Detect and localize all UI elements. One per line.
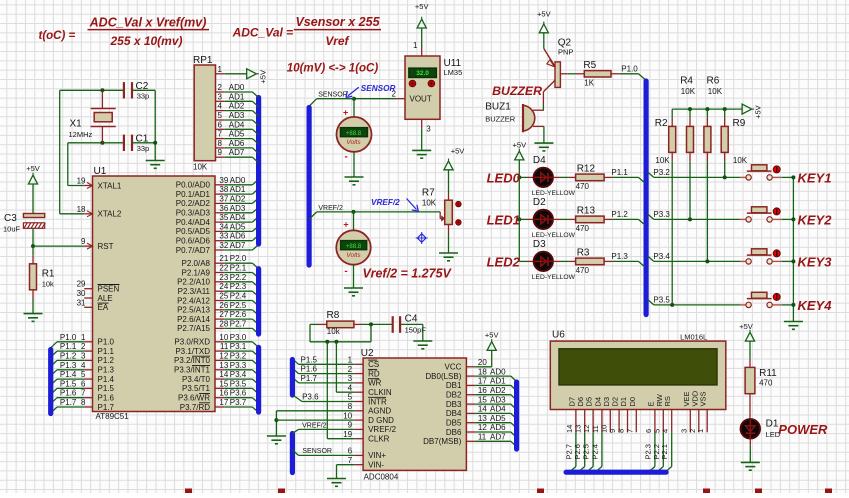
svg-text:AD5: AD5 (490, 414, 506, 423)
svg-text:AD1: AD1 (230, 185, 246, 194)
svg-text:DB3: DB3 (446, 400, 462, 409)
svg-text:VREF/2: VREF/2 (318, 205, 343, 212)
svg-text:R6: R6 (707, 76, 720, 87)
svg-text:7: 7 (348, 456, 353, 465)
svg-text:32: 32 (219, 241, 228, 250)
svg-text:7: 7 (81, 389, 86, 398)
svg-text:28: 28 (219, 319, 228, 328)
svg-text:3: 3 (218, 92, 223, 101)
svg-text:+5V: +5V (754, 105, 763, 119)
svg-text:P1.2: P1.2 (60, 351, 77, 360)
svg-text:P1.2: P1.2 (611, 210, 628, 219)
svg-text:P3.5: P3.5 (230, 379, 247, 388)
svg-text:AT89C51: AT89C51 (96, 412, 130, 421)
svg-text:470: 470 (576, 266, 590, 275)
svg-text:5: 5 (348, 393, 353, 402)
svg-text:11: 11 (220, 342, 229, 351)
svg-text:P2.2: P2.2 (230, 273, 247, 282)
svg-text:P3.2/INT0: P3.2/INT0 (174, 356, 211, 365)
svg-text:P2.7/A15: P2.7/A15 (177, 324, 210, 333)
svg-text:PSEN: PSEN (98, 285, 120, 294)
svg-text:P3.7: P3.7 (230, 398, 247, 407)
svg-text:D0: D0 (628, 397, 637, 407)
svg-text:470: 470 (576, 182, 590, 191)
svg-text:AD2: AD2 (230, 194, 246, 203)
svg-text:SENSOR: SENSOR (318, 92, 348, 99)
svg-text:P2.2/A10: P2.2/A10 (177, 278, 210, 287)
svg-text:D5: D5 (585, 397, 594, 407)
svg-text:23: 23 (219, 273, 228, 282)
svg-text:10K: 10K (681, 87, 696, 96)
svg-text:KEY1: KEY1 (798, 170, 832, 185)
svg-text:13: 13 (478, 414, 487, 423)
svg-text:34: 34 (219, 222, 228, 231)
svg-text:P3.2: P3.2 (230, 351, 247, 360)
svg-text:4: 4 (661, 429, 670, 433)
svg-text:P3.0: P3.0 (230, 333, 247, 342)
svg-text:P3.4/T0: P3.4/T0 (182, 375, 211, 384)
svg-text:P1.0: P1.0 (621, 64, 638, 73)
svg-text:CS: CS (368, 360, 379, 369)
svg-text:VREF/2: VREF/2 (302, 422, 327, 429)
svg-text:25: 25 (219, 292, 228, 301)
svg-text:AD0: AD0 (490, 367, 506, 376)
svg-text:10K: 10K (708, 87, 723, 96)
svg-text:Vref/2 = 1.275V: Vref/2 = 1.275V (363, 267, 453, 281)
svg-text:VIN+: VIN+ (368, 451, 386, 460)
svg-text:D1: D1 (766, 419, 779, 430)
svg-text:18: 18 (478, 367, 487, 376)
svg-text:+5V: +5V (739, 322, 753, 331)
svg-text:LED0: LED0 (487, 171, 521, 186)
svg-text:+5V: +5V (485, 331, 499, 340)
svg-text:5: 5 (81, 370, 86, 379)
svg-text:9: 9 (218, 148, 223, 157)
svg-text:P1.3: P1.3 (60, 361, 77, 370)
svg-text:P1.7: P1.7 (301, 374, 318, 383)
svg-text:P3.5/T1: P3.5/T1 (182, 384, 211, 393)
svg-text:P1.7: P1.7 (98, 403, 115, 412)
svg-text:POWER: POWER (778, 422, 828, 437)
svg-text:37: 37 (219, 194, 228, 203)
svg-text:18: 18 (77, 205, 86, 214)
svg-text:DB4: DB4 (446, 409, 462, 418)
svg-text:10K: 10K (422, 198, 437, 207)
svg-text:8: 8 (348, 402, 353, 411)
svg-text:AD3: AD3 (230, 204, 246, 213)
svg-text:P1.1: P1.1 (98, 347, 115, 356)
svg-text:21: 21 (219, 254, 228, 263)
svg-text:P1.0: P1.0 (98, 338, 115, 347)
svg-text:Vsensor x 255: Vsensor x 255 (295, 15, 380, 29)
svg-text:6: 6 (81, 379, 86, 388)
svg-text:31: 31 (77, 298, 86, 307)
svg-text:9: 9 (348, 421, 353, 430)
svg-text:R3: R3 (577, 247, 590, 258)
svg-text:36: 36 (219, 204, 228, 213)
svg-text:P1.6: P1.6 (60, 389, 77, 398)
svg-text:DB0(LSB): DB0(LSB) (425, 372, 461, 381)
svg-text:38: 38 (219, 185, 228, 194)
svg-text:R9: R9 (733, 118, 746, 129)
svg-text:10k: 10k (327, 327, 341, 336)
svg-text:4: 4 (348, 383, 353, 392)
svg-text:D GND: D GND (368, 416, 394, 425)
svg-text:AD1: AD1 (490, 377, 506, 386)
svg-text:D3: D3 (533, 239, 546, 250)
svg-text:10K: 10K (655, 156, 670, 165)
svg-text:P3.6: P3.6 (230, 389, 247, 398)
svg-text:AD0: AD0 (229, 83, 245, 92)
svg-text:ADC_Val x Vref(mv): ADC_Val x Vref(mv) (89, 16, 207, 30)
svg-text:VOUT: VOUT (410, 95, 432, 104)
svg-text:Vref: Vref (325, 34, 349, 48)
svg-text:24: 24 (219, 282, 228, 291)
svg-text:DB5: DB5 (446, 419, 462, 428)
svg-text:33p: 33p (137, 91, 150, 100)
svg-text:1: 1 (348, 356, 353, 365)
svg-text:KEY4: KEY4 (798, 298, 833, 313)
svg-text:P2.5: P2.5 (582, 444, 591, 459)
svg-text:P3.1/TXD: P3.1/TXD (175, 347, 210, 356)
svg-text:DB2: DB2 (446, 391, 462, 400)
svg-text:P1.5: P1.5 (98, 384, 115, 393)
svg-text:P2.0: P2.0 (230, 254, 247, 263)
svg-text:P0.6/AD6: P0.6/AD6 (176, 237, 211, 246)
svg-text:P2.3: P2.3 (230, 282, 247, 291)
svg-text:P2.1/A9: P2.1/A9 (182, 268, 211, 277)
svg-text:SENSOR: SENSOR (302, 448, 332, 455)
svg-text:13: 13 (219, 361, 228, 370)
svg-text:P2.7: P2.7 (564, 444, 573, 459)
svg-text:+5V: +5V (451, 147, 465, 156)
svg-text:+5V: +5V (513, 141, 527, 150)
svg-text:AD7: AD7 (229, 148, 245, 157)
svg-text:1: 1 (413, 41, 418, 50)
svg-text:17: 17 (219, 398, 228, 407)
svg-text:P3.2: P3.2 (653, 168, 670, 177)
svg-text:DB6: DB6 (446, 428, 462, 437)
svg-text:P3.3/INT1: P3.3/INT1 (174, 366, 211, 375)
svg-text:10(mV) <-> 1(oC): 10(mV) <-> 1(oC) (287, 63, 379, 75)
svg-text:AD7: AD7 (490, 433, 506, 442)
svg-text:VREF/2: VREF/2 (368, 425, 397, 434)
svg-text:WR: WR (368, 379, 382, 388)
svg-text:ADC0804: ADC0804 (364, 472, 399, 481)
svg-text:33: 33 (219, 232, 228, 241)
svg-text:10: 10 (599, 425, 608, 433)
svg-text:-: - (345, 152, 348, 163)
svg-text:+88.8: +88.8 (346, 244, 362, 250)
svg-text:1K: 1K (584, 78, 594, 87)
svg-text:KEY3: KEY3 (798, 254, 833, 269)
svg-text:AD5: AD5 (230, 222, 246, 231)
svg-text:DB1: DB1 (446, 381, 462, 390)
svg-text:2: 2 (81, 342, 86, 351)
svg-text:+5V: +5V (415, 2, 429, 11)
svg-text:470: 470 (759, 379, 773, 388)
svg-text:VIN-: VIN- (368, 461, 384, 470)
svg-text:U6: U6 (552, 330, 565, 341)
svg-text:8: 8 (218, 139, 223, 148)
svg-text:10uF: 10uF (3, 225, 21, 234)
svg-text:D4: D4 (533, 155, 546, 166)
svg-text:6: 6 (218, 120, 223, 129)
svg-text:7: 7 (625, 429, 634, 433)
svg-text:4: 4 (218, 102, 223, 111)
svg-text:35: 35 (219, 213, 228, 222)
svg-text:AD3: AD3 (229, 111, 245, 120)
svg-text:12: 12 (582, 425, 591, 433)
svg-text:11: 11 (478, 433, 487, 442)
svg-text:AD0: AD0 (230, 176, 246, 185)
svg-text:SENSOR: SENSOR (361, 84, 396, 93)
svg-text:5: 5 (218, 111, 223, 120)
svg-text:10K: 10K (193, 163, 208, 172)
svg-text:29: 29 (77, 280, 86, 289)
svg-text:KEY2: KEY2 (798, 212, 833, 227)
svg-text:D2: D2 (533, 197, 546, 208)
svg-text:R8: R8 (327, 310, 340, 321)
svg-text:AD6: AD6 (490, 423, 506, 432)
svg-text:EA: EA (98, 303, 109, 312)
svg-text:3: 3 (348, 374, 353, 383)
svg-text:D1: D1 (619, 397, 628, 407)
svg-text:P2.1: P2.1 (660, 444, 669, 459)
svg-text:RST: RST (98, 242, 114, 251)
svg-text:P1.6: P1.6 (98, 394, 115, 403)
svg-text:RD: RD (368, 369, 380, 378)
svg-text:C4: C4 (405, 314, 418, 325)
svg-text:R5: R5 (583, 60, 596, 71)
svg-text:R4: R4 (680, 76, 693, 87)
svg-text:27: 27 (219, 310, 228, 319)
svg-text:P2.4: P2.4 (590, 444, 599, 459)
svg-text:P3.4: P3.4 (653, 252, 670, 261)
svg-text:14: 14 (565, 425, 574, 433)
svg-text:3: 3 (426, 124, 431, 133)
svg-text:+5V: +5V (26, 164, 40, 173)
svg-text:20: 20 (478, 358, 487, 367)
svg-text:R12: R12 (577, 163, 596, 174)
svg-text:3: 3 (81, 351, 86, 360)
svg-text:P1.6: P1.6 (301, 365, 318, 374)
svg-text:P3.6/WR: P3.6/WR (178, 394, 210, 403)
svg-text:LM35: LM35 (444, 68, 463, 77)
svg-text:U2: U2 (361, 348, 374, 359)
svg-text:U1: U1 (94, 166, 107, 177)
svg-text:LM016L: LM016L (680, 332, 707, 341)
svg-text:AD7: AD7 (230, 241, 246, 250)
svg-text:22: 22 (219, 264, 228, 273)
svg-text:19: 19 (77, 177, 86, 186)
svg-text:PNP: PNP (558, 48, 573, 57)
svg-text:P1.3: P1.3 (98, 366, 115, 375)
svg-text:32.0: 32.0 (416, 70, 429, 77)
svg-text:9: 9 (81, 237, 86, 246)
svg-text:VREF/2: VREF/2 (371, 198, 400, 207)
svg-text:15: 15 (478, 395, 487, 404)
svg-text:P2.6/A14: P2.6/A14 (177, 315, 210, 324)
svg-text:10k: 10k (42, 280, 54, 289)
svg-text:D3: D3 (602, 397, 611, 407)
svg-text:VSS: VSS (699, 391, 708, 406)
svg-text:470: 470 (576, 224, 590, 233)
svg-text:DB7(MSB): DB7(MSB) (423, 437, 462, 446)
svg-text:AD2: AD2 (490, 386, 506, 395)
svg-text:+5V: +5V (537, 10, 551, 19)
svg-text:P2.4/A12: P2.4/A12 (177, 296, 210, 305)
svg-text:14: 14 (219, 370, 228, 379)
svg-text:RP1: RP1 (193, 55, 213, 66)
svg-text:ALE: ALE (98, 294, 113, 303)
svg-text:Volts: Volts (346, 139, 361, 146)
svg-text:R2: R2 (655, 118, 668, 129)
svg-text:P1.4: P1.4 (98, 375, 115, 384)
svg-text:P3.3: P3.3 (653, 210, 670, 219)
svg-text:P3.1: P3.1 (230, 342, 247, 351)
svg-text:P1.4: P1.4 (60, 370, 77, 379)
svg-text:AD6: AD6 (230, 232, 246, 241)
svg-text:255 x 10(mv): 255 x 10(mv) (109, 34, 182, 48)
svg-text:12: 12 (478, 423, 487, 432)
svg-text:P2.7: P2.7 (230, 319, 247, 328)
svg-text:P0.5/AD5: P0.5/AD5 (176, 227, 211, 236)
svg-text:R13: R13 (577, 205, 596, 216)
svg-text:-: - (344, 266, 347, 277)
svg-text:10K: 10K (733, 156, 748, 165)
svg-text:P0.2/AD2: P0.2/AD2 (176, 199, 211, 208)
svg-text:1: 1 (218, 65, 223, 74)
svg-text:AD4: AD4 (490, 405, 506, 414)
svg-text:16: 16 (219, 389, 228, 398)
svg-text:AD6: AD6 (229, 139, 245, 148)
svg-text:C3: C3 (4, 213, 17, 224)
svg-text:AD1: AD1 (229, 92, 245, 101)
svg-text:8: 8 (81, 398, 86, 407)
svg-text:P3.0/RXD: P3.0/RXD (174, 338, 210, 347)
svg-text:P1.0: P1.0 (60, 333, 77, 342)
svg-text:XTAL1: XTAL1 (98, 181, 122, 190)
svg-text:P0.0/AD0: P0.0/AD0 (176, 181, 211, 190)
svg-text:P2.3/A11: P2.3/A11 (178, 287, 211, 296)
svg-text:P0.7/AD7: P0.7/AD7 (176, 246, 211, 255)
svg-text:39: 39 (219, 176, 228, 185)
svg-text:10: 10 (343, 411, 352, 420)
svg-text:LED-YELLOW: LED-YELLOW (532, 274, 576, 281)
svg-text:INTR: INTR (368, 397, 387, 406)
svg-text:LED1: LED1 (487, 213, 520, 228)
svg-text:7: 7 (218, 130, 223, 139)
svg-text:AD4: AD4 (229, 120, 245, 129)
svg-text:1: 1 (81, 333, 86, 342)
svg-text:19: 19 (343, 430, 352, 439)
svg-text:2: 2 (218, 83, 223, 92)
svg-text:+5V: +5V (258, 70, 267, 84)
svg-text:P1.1: P1.1 (60, 342, 77, 351)
svg-text:P2.5: P2.5 (230, 301, 247, 310)
svg-text:VCC: VCC (445, 363, 462, 372)
svg-text:P3.6: P3.6 (302, 393, 319, 402)
svg-text:P2.4: P2.4 (230, 292, 247, 301)
svg-text:8: 8 (617, 429, 626, 433)
svg-text:RS: RS (663, 396, 672, 406)
svg-text:AD2: AD2 (229, 102, 245, 111)
svg-text:CLKR: CLKR (368, 435, 390, 444)
svg-text:P0.3/AD3: P0.3/AD3 (176, 209, 211, 218)
svg-text:R7: R7 (422, 188, 435, 199)
svg-text:LED2: LED2 (487, 255, 521, 270)
svg-text:P1.5: P1.5 (60, 379, 77, 388)
svg-text:P0.1/AD1: P0.1/AD1 (176, 190, 211, 199)
svg-text:BUZ1: BUZ1 (485, 102, 511, 113)
svg-text:33p: 33p (137, 144, 150, 153)
svg-text:BUZZER: BUZZER (492, 84, 542, 98)
svg-text:+: + (343, 220, 348, 230)
svg-text:P3.4: P3.4 (230, 370, 247, 379)
svg-text:30: 30 (77, 289, 86, 298)
svg-text:P1.1: P1.1 (611, 168, 628, 177)
svg-text:12: 12 (219, 351, 228, 360)
svg-text:4: 4 (81, 361, 86, 370)
svg-text:15: 15 (219, 379, 228, 388)
svg-text:X1: X1 (70, 119, 83, 130)
svg-text:BUZZER: BUZZER (485, 114, 516, 123)
svg-text:Volts: Volts (346, 252, 361, 259)
svg-text:10: 10 (219, 333, 228, 342)
svg-text:t(oC) =: t(oC) = (39, 30, 76, 42)
svg-text:AD3: AD3 (490, 395, 506, 404)
svg-text:14: 14 (478, 405, 487, 414)
svg-text:P3.7/RD: P3.7/RD (180, 403, 210, 412)
svg-text:AGND: AGND (368, 407, 391, 416)
svg-text:17: 17 (478, 377, 487, 386)
svg-text:R1: R1 (42, 269, 55, 280)
svg-text:2: 2 (348, 365, 353, 374)
svg-text:P1.5: P1.5 (301, 355, 318, 364)
svg-text:1: 1 (696, 429, 705, 433)
svg-text:P1.3: P1.3 (611, 252, 628, 261)
svg-text:16: 16 (478, 386, 487, 395)
svg-text:CLKIN: CLKIN (368, 388, 392, 397)
svg-text:6: 6 (348, 447, 353, 456)
svg-text:P0.4/AD4: P0.4/AD4 (176, 218, 211, 227)
svg-text:P2.0/A8: P2.0/A8 (182, 259, 211, 268)
svg-text:AD4: AD4 (230, 213, 246, 222)
svg-text:D7: D7 (567, 397, 576, 407)
svg-text:P3.5: P3.5 (653, 296, 670, 305)
svg-text:26: 26 (219, 301, 228, 310)
svg-text:P3.3: P3.3 (230, 361, 247, 370)
svg-text:+88.8: +88.8 (346, 131, 362, 137)
svg-text:P2.5/A13: P2.5/A13 (177, 306, 210, 315)
svg-text:P1.7: P1.7 (60, 398, 77, 407)
svg-text:ADC_Val =: ADC_Val = (232, 26, 294, 40)
svg-text:AD5: AD5 (229, 130, 245, 139)
svg-text:P2.6: P2.6 (230, 310, 247, 319)
svg-text:XTAL2: XTAL2 (98, 210, 122, 219)
svg-text:12MHz: 12MHz (69, 130, 93, 139)
svg-text:P2.1: P2.1 (230, 264, 247, 273)
svg-text:+: + (343, 108, 348, 118)
svg-text:P1.2: P1.2 (98, 356, 115, 365)
